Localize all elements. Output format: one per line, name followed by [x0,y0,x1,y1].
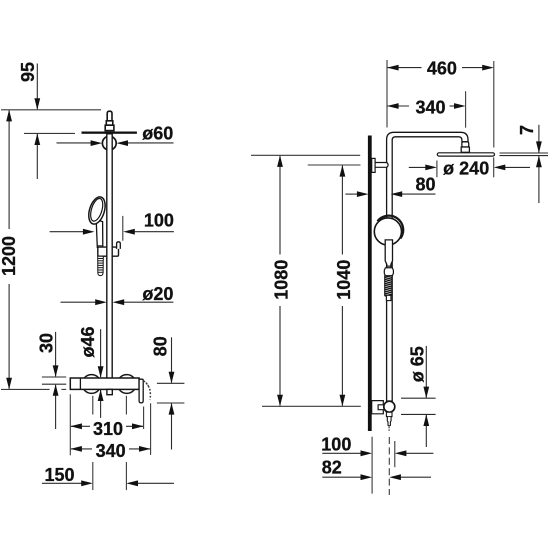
dim 340 right view [465,91,467,128]
ext line wall surface [371,437,373,494]
column pipe [107,134,112,378]
hand shower handle side [385,240,392,266]
svg-text:150: 150 [45,465,75,485]
svg-text:95: 95 [18,62,38,82]
dim 95 line lower [36,134,38,179]
svg-text:460: 460 [427,58,457,78]
ref line bottom (mixer bottom level) [1,388,50,390]
svg-text:80: 80 [415,174,435,194]
hose end fitting [386,295,391,300]
svg-text:ø46: ø46 [78,326,98,357]
hose phantom hatch [144,381,151,400]
dim 100 (hand shower) [50,231,84,233]
dim 310 [71,425,90,427]
svg-text:30: 30 [37,333,57,353]
svg-text:1040: 1040 [334,260,354,300]
svg-text:340: 340 [96,441,126,461]
wall flange [372,158,375,172]
ref line head level [24,132,75,134]
dim o20 [61,301,97,303]
dim 340 left view [71,448,92,450]
head connector rings [462,142,469,147]
mixer bracket side [372,401,384,414]
dim 1080 [279,156,281,255]
hand shower head outer [86,195,108,226]
ref lines 30 [42,376,66,378]
hose (ribbed) [98,256,104,275]
holder ball [374,218,401,245]
dim o240 [436,161,438,178]
svg-text:310: 310 [93,419,123,439]
shower head (edge-on disc) [82,132,137,134]
dim o65 [401,397,436,399]
svg-text:100: 100 [321,435,351,455]
top knob (head connector) [105,111,114,130]
hand shower head inner [88,197,105,222]
dim 150 [42,482,82,484]
svg-text:ø60: ø60 [142,123,173,143]
svg-text:1080: 1080 [272,260,292,300]
dim 82 [322,476,361,478]
ref line head bottom level [251,154,360,156]
mixer valve circle side [384,401,395,412]
ref line wall union level [308,164,361,166]
svg-text:7: 7 [517,125,537,135]
wall line [368,136,372,432]
dim 460 [386,60,388,128]
dim 7 [500,152,548,154]
hose hatched [385,276,392,297]
svg-text:ø 65: ø 65 [407,346,427,382]
ref line top (shower head top level) [1,109,101,111]
drip dashes [388,427,390,431]
dim 95 line upper [36,64,38,110]
ball joint circle [102,136,116,150]
pipe stub below bar [107,389,112,394]
svg-text:ø20: ø20 [142,284,173,304]
svg-text:80: 80 [150,336,170,356]
svg-text:ø 240: ø 240 [443,159,489,179]
holder bracket [98,247,119,256]
handle neck [387,266,391,268]
dim 80 left view [157,382,185,384]
svg-text:100: 100 [144,211,174,231]
dim 80 right view [345,193,357,195]
hose nut [384,268,393,276]
dim 30 [55,332,57,377]
wall supply pin [375,163,388,168]
dim o46 [100,329,102,377]
head disc side view [437,153,494,156]
dim 100 right view [322,452,361,454]
svg-text:1200: 1200 [0,236,19,276]
ext line mixer front [394,441,396,467]
riser pipe with arm elbow [387,132,468,401]
outlet hook right [139,379,143,403]
holder hook [117,242,121,249]
mixer nozzle [386,412,392,426]
dim 1200 line [8,110,10,229]
dim o60 [57,142,92,144]
valve handle circles [82,375,101,394]
hand shower handle [96,220,103,248]
ref line mixer axis level [262,405,361,407]
dim 1040 [341,166,343,255]
ext lines mixer [69,394,71,455]
mixer bar [70,378,139,389]
centerline riser axis [388,437,390,495]
svg-text:82: 82 [322,458,342,478]
svg-text:340: 340 [415,97,445,117]
